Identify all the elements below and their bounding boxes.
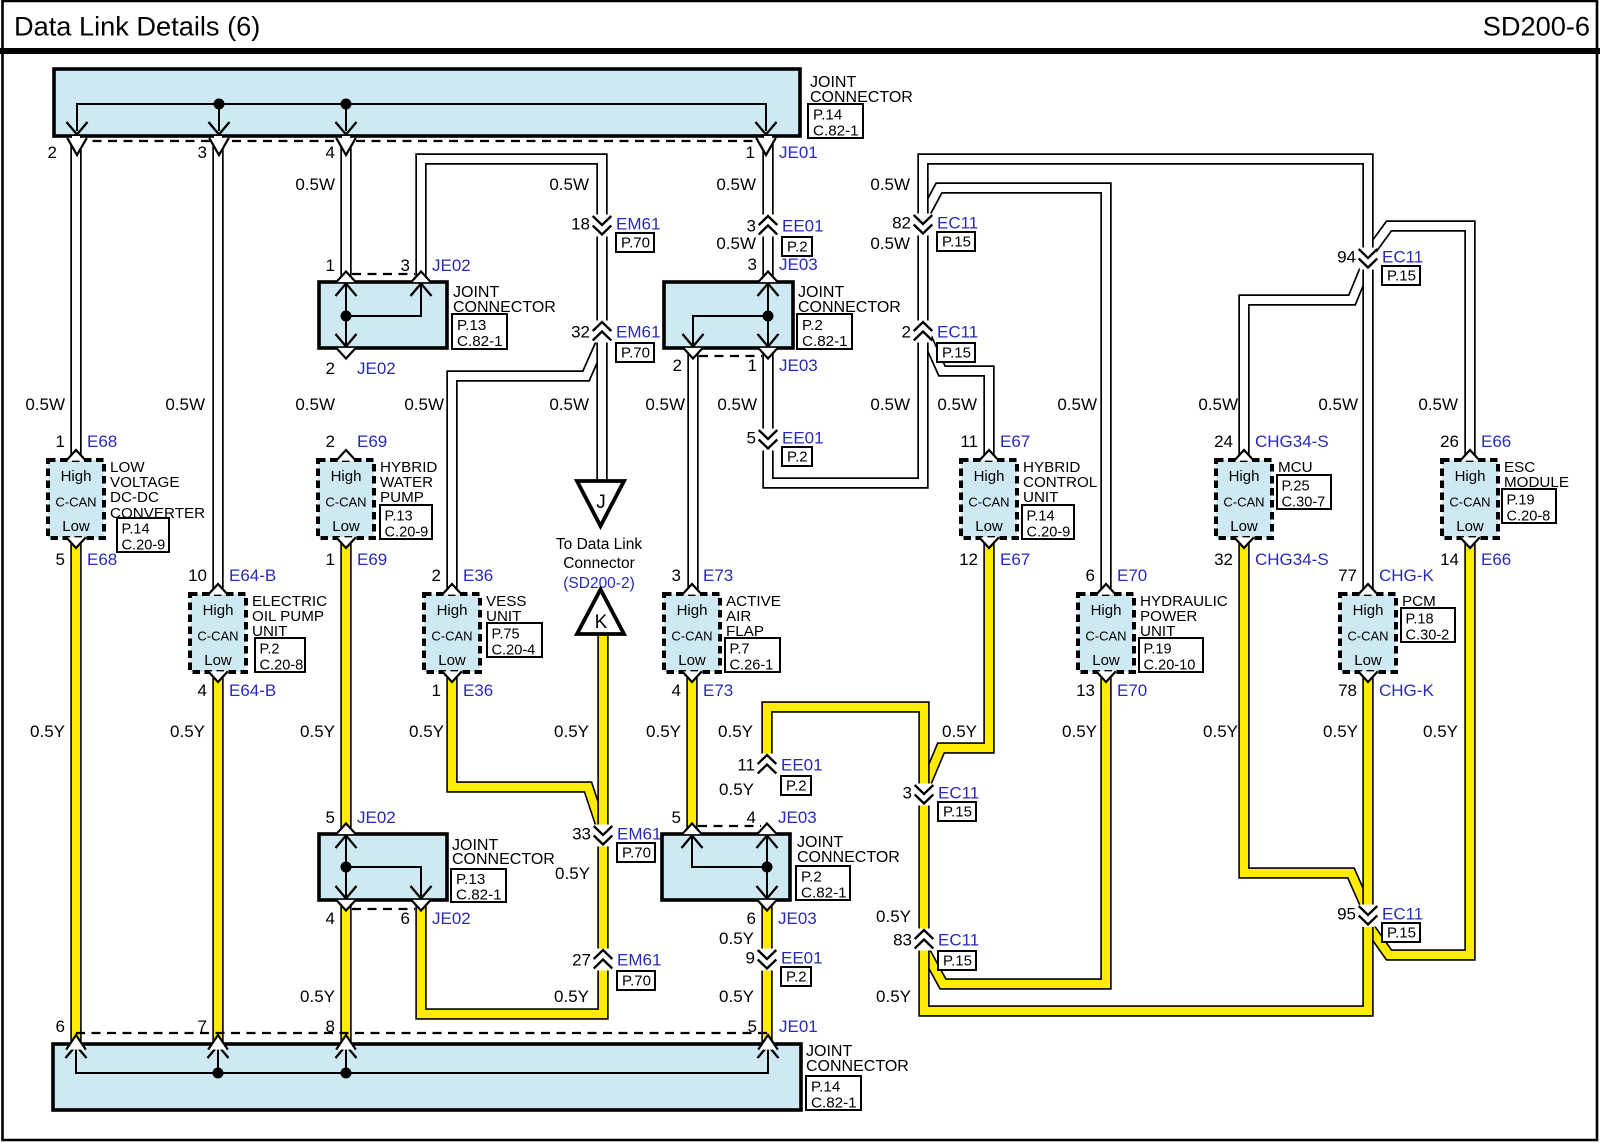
wire E66-14 to EC11-95 (0.5Y): [1370, 538, 1470, 955]
svg-text:EC11: EC11: [1382, 905, 1423, 924]
label JE03 upper page ref P.2 C.82-1: [797, 314, 852, 350]
svg-text:EM61: EM61: [616, 215, 660, 234]
svg-text:5: 5: [748, 1017, 757, 1036]
svg-text:2: 2: [902, 323, 911, 342]
junction dot on bottom JE01 bus: [341, 1068, 352, 1079]
svg-text:0.5W: 0.5W: [25, 395, 65, 414]
joint connector JE03 (upper) box: [664, 282, 793, 348]
svg-text:Low: Low: [438, 652, 466, 669]
wire-end arrow below JE01 top at x=766: [756, 138, 776, 155]
svg-text:0.5Y: 0.5Y: [554, 722, 589, 741]
svg-text:0.5Y: 0.5Y: [876, 987, 911, 1006]
svg-text:33: 33: [572, 825, 591, 844]
dashed boundary JE02 lower: [352, 908, 415, 910]
label JE02 lower pin top: [326, 808, 396, 827]
wire JE02-4 to JE01-8 (0.5Y): [340, 900, 351, 1046]
label pin 95 EC11 P.15: [1337, 905, 1423, 943]
svg-text:C-CAN: C-CAN: [671, 629, 712, 644]
wire-end arrows JE02 upper: [336, 272, 431, 359]
svg-text:C.82-1: C.82-1: [811, 1095, 857, 1112]
svg-text:EE01: EE01: [781, 756, 823, 775]
svg-text:MCU: MCU: [1278, 459, 1313, 476]
svg-text:EC11: EC11: [938, 784, 979, 803]
svg-text:P.15: P.15: [1387, 268, 1416, 285]
svg-text:High: High: [1455, 468, 1486, 485]
svg-text:0.5Y: 0.5Y: [719, 780, 754, 799]
svg-text:C-CAN: C-CAN: [325, 495, 366, 510]
wire CHG-K-78 to EC11-95 (0.5Y): [1362, 672, 1373, 907]
connector EM61 pin 32: [593, 321, 612, 343]
svg-text:Low: Low: [1230, 518, 1258, 535]
dashed boundary JE01 top: [77, 140, 766, 142]
svg-text:18: 18: [571, 215, 590, 234]
svg-text:27: 27: [572, 951, 591, 970]
label pin 33 EM61 P.70: [572, 825, 661, 863]
label unit ESC MODULE (E66) page ref: [1502, 489, 1556, 525]
connector EM61 pin 18: [593, 215, 612, 237]
svg-text:Low: Low: [62, 518, 90, 535]
svg-text:High: High: [677, 602, 708, 619]
svg-text:EE01: EE01: [782, 429, 824, 448]
pin 1 E69 (bottom): [326, 537, 388, 569]
wire EE01-5 to EC11-2 (0.5W): [768, 341, 923, 483]
svg-text:5: 5: [747, 429, 756, 448]
svg-text:13: 13: [1076, 681, 1095, 700]
pin 24 CHG34-S (top): [1214, 432, 1329, 461]
svg-text:0.5W: 0.5W: [870, 395, 910, 414]
svg-text:0.5W: 0.5W: [1318, 395, 1358, 414]
label JE01 top pins: [48, 143, 818, 162]
svg-text:2: 2: [48, 143, 57, 162]
pin 4 E64-B (bottom): [198, 671, 277, 700]
svg-text:E64-B: E64-B: [229, 566, 276, 585]
pin 13 E70 (bottom): [1076, 671, 1147, 700]
label JOINT CONNECTOR (JE03 upper): [798, 284, 901, 316]
svg-text:Data Link Details (6): Data Link Details (6): [14, 11, 260, 42]
pin 12 E67 (bottom): [959, 537, 1030, 569]
pin 26 E66 (top): [1440, 432, 1511, 461]
svg-text:1: 1: [746, 143, 755, 162]
label JOINT CONNECTOR (bottom): [806, 1043, 909, 1075]
label pin 3 EE01 P.2: [747, 217, 824, 257]
label unit LOW VOLTAGE DC-DC CONVERTER (E68) name: [110, 459, 205, 522]
label unit HYDRAULIC POWER UNIT (E70) name: [1140, 593, 1228, 640]
svg-text:0.5Y: 0.5Y: [30, 722, 65, 741]
svg-text:CHG34-S: CHG34-S: [1255, 550, 1329, 569]
connector EC11 pin 83: [915, 929, 934, 951]
svg-text:Low: Low: [1354, 652, 1382, 669]
label unit MCU (CHG34-S) name: [1278, 459, 1313, 476]
unit ESC MODULE (E66): [1442, 460, 1498, 538]
off-page connector J: [577, 481, 624, 526]
unit LOW VOLTAGE DC-DC CONVERTER (E68): [48, 460, 104, 538]
svg-text:C-CAN: C-CAN: [1085, 629, 1126, 644]
svg-text:94: 94: [1337, 248, 1356, 267]
wire JE01-4 to JE02-1 (0.5W): [340, 136, 351, 282]
pin 2 E69 (top): [326, 432, 388, 461]
wire EC11-82 to EC11-2 (0.5W): [917, 234, 928, 323]
svg-text:C-CAN: C-CAN: [55, 495, 96, 510]
svg-text:P.2: P.2: [802, 317, 823, 334]
label unit VESS UNIT (E36) name: [486, 593, 527, 625]
label pin 2 EC11 P.15: [902, 323, 979, 363]
svg-text:C-CAN: C-CAN: [1223, 495, 1264, 510]
svg-text:P.75: P.75: [492, 627, 520, 643]
wire-end arrow below JE01 top at x=219: [209, 138, 229, 155]
svg-text:C.26-1: C.26-1: [730, 658, 774, 674]
label JE02 upper page ref P.13 C.82-1: [452, 314, 507, 350]
svg-text:6: 6: [1086, 566, 1095, 585]
wire EC11-3 to EC11-83 (0.5Y): [918, 804, 929, 931]
svg-text:2: 2: [673, 356, 682, 375]
pin 1 E68 (top): [56, 432, 118, 461]
junction dot on bottom JE01 bus: [213, 1068, 224, 1079]
internal arrow JE01 pin at x=77: [67, 122, 88, 135]
svg-text:Connector: Connector: [563, 555, 635, 572]
wire-end arrows JE03 lower: [682, 824, 777, 911]
pin 10 E64-B (top): [188, 566, 276, 595]
label unit HYBRID WATER PUMP (E69) name: [380, 459, 437, 506]
svg-text:0.5Y: 0.5Y: [555, 864, 590, 883]
unit ELECTRIC OIL PUMP UNIT (E64-B): [190, 594, 246, 672]
svg-text:P.14: P.14: [1027, 509, 1055, 525]
svg-text:Low: Low: [678, 652, 706, 669]
svg-text:Low: Low: [975, 518, 1003, 535]
svg-text:C-CAN: C-CAN: [1449, 495, 1490, 510]
svg-text:K: K: [595, 612, 608, 633]
junction dot on JE01 bus: [214, 99, 225, 110]
svg-text:EC11: EC11: [938, 931, 979, 950]
svg-text:E67: E67: [1000, 432, 1030, 451]
connector EE01 pin 11: [758, 754, 777, 776]
label pin 5 EE01 P.2: [747, 429, 824, 467]
wire-end arrow above JE01 bottom at x=76: [66, 1035, 86, 1050]
svg-text:9: 9: [746, 949, 755, 968]
label pin 94 EC11 P.15: [1337, 248, 1423, 286]
wire JE01-3 to E64-B-10 (0.5W): [212, 136, 223, 594]
svg-text:3: 3: [747, 217, 756, 236]
svg-text:95: 95: [1337, 905, 1356, 924]
wire E66-26 to EC11-94 (0.5W): [1370, 226, 1470, 460]
pin 11 E67 (top): [960, 432, 1030, 461]
svg-text:4: 4: [747, 808, 756, 827]
wire EC11-94 to CHG-K-77 (0.5W): [1362, 268, 1373, 594]
svg-text:E64-B: E64-B: [229, 681, 276, 700]
svg-text:3: 3: [672, 566, 681, 585]
svg-text:High: High: [1229, 468, 1260, 485]
svg-text:83: 83: [893, 931, 912, 950]
svg-text:5: 5: [672, 808, 681, 827]
svg-text:To Data Link: To Data Link: [556, 536, 642, 553]
internal arrow bottom JE01 pin at x=768: [758, 1046, 779, 1059]
svg-text:11: 11: [737, 756, 755, 775]
svg-text:P.14: P.14: [813, 107, 842, 124]
label JE02 lower pins bottom: [326, 909, 471, 928]
off-page connector K: [577, 590, 624, 635]
wire E36-1 to EM61-33 (0.5Y): [452, 672, 601, 826]
svg-text:P.13: P.13: [385, 509, 413, 525]
svg-text:0.5Y: 0.5Y: [1203, 722, 1238, 741]
label pin 27 EM61 P.70: [572, 951, 661, 991]
svg-text:CONNECTOR: CONNECTOR: [452, 851, 555, 868]
svg-text:P.2: P.2: [787, 239, 808, 256]
svg-text:1: 1: [748, 356, 757, 375]
wire EC11-83 branch to E70-13 (0.5Y): [925, 672, 1106, 984]
svg-text:P.15: P.15: [943, 953, 972, 970]
svg-text:C.20-9: C.20-9: [122, 538, 166, 554]
wire-end arrow below JE01 top at x=77: [67, 138, 87, 155]
svg-text:0.5Y: 0.5Y: [719, 929, 754, 948]
label pin 3 EC11 P.15: [903, 784, 980, 822]
svg-text:P.7: P.7: [730, 642, 750, 658]
svg-text:High: High: [203, 602, 234, 619]
svg-text:2: 2: [326, 432, 335, 451]
svg-text:E70: E70: [1117, 566, 1147, 585]
svg-text:0.5W: 0.5W: [937, 395, 977, 414]
svg-text:P.70: P.70: [622, 845, 651, 862]
svg-text:JE03: JE03: [778, 909, 817, 928]
internal arrow bottom JE01 pin at x=218: [208, 1046, 229, 1059]
JE03 upper internal wiring: [693, 284, 768, 346]
svg-text:0.5Y: 0.5Y: [942, 722, 977, 741]
label bottom JC page ref P.14 C.82-1: [806, 1076, 861, 1112]
svg-text:C.82-1: C.82-1: [802, 333, 848, 350]
svg-text:6: 6: [401, 909, 410, 928]
connector EC11 pin 3: [915, 784, 934, 806]
wire E64-B-4 to JE01-7 (0.5Y): [212, 672, 223, 1046]
wire EM61-32 to J connector (0.5W): [596, 341, 607, 480]
svg-text:8: 8: [326, 1017, 335, 1036]
junction dot on JE01 bus: [341, 99, 352, 110]
svg-text:CHG-K: CHG-K: [1379, 566, 1434, 585]
svg-text:Low: Low: [204, 652, 232, 669]
label unit HYBRID CONTROL UNIT (E67) page ref: [1022, 505, 1074, 541]
svg-text:P.2: P.2: [801, 869, 822, 886]
svg-text:JE03: JE03: [779, 255, 818, 274]
svg-text:CHG-K: CHG-K: [1379, 681, 1434, 700]
svg-text:C.20-4: C.20-4: [492, 643, 536, 659]
svg-text:High: High: [61, 468, 92, 485]
svg-text:P.18: P.18: [1406, 612, 1434, 628]
svg-text:EC11: EC11: [937, 323, 978, 342]
unit HYBRID CONTROL UNIT (E67): [961, 460, 1017, 538]
svg-text:4: 4: [326, 143, 335, 162]
label JOINT CONNECTOR (JE03 lower): [797, 834, 900, 866]
svg-text:10: 10: [188, 566, 207, 585]
label unit LOW VOLTAGE DC-DC CONVERTER (E68) page ref: [117, 518, 169, 554]
svg-text:C-CAN: C-CAN: [1347, 629, 1388, 644]
wire EM61-32 branch to E36-2 (0.5W): [452, 340, 602, 594]
svg-text:12: 12: [959, 550, 978, 569]
svg-text:JE01: JE01: [779, 143, 818, 162]
joint connector JE02 (lower) box: [319, 834, 447, 900]
pin 77 CHG-K (top): [1338, 566, 1434, 595]
svg-text:0.5W: 0.5W: [717, 395, 757, 414]
label unit ACTIVE AIR FLAP (E73) name: [726, 593, 781, 640]
wire EC11-82 to EC11-94 (0.5W): [923, 159, 1368, 250]
wire-end arrow above JE01 bottom at x=218: [208, 1035, 228, 1050]
svg-text:P.2: P.2: [786, 778, 807, 795]
label unit HYBRID WATER PUMP (E69) page ref: [380, 505, 432, 541]
svg-text:0.5W: 0.5W: [870, 234, 910, 253]
svg-text:JE01: JE01: [779, 1017, 818, 1036]
svg-text:EE01: EE01: [781, 949, 823, 968]
dashed boundary JE02 upper: [352, 273, 415, 275]
svg-text:4: 4: [326, 909, 335, 928]
label JE01 bottom pins: [56, 1017, 818, 1036]
label unit HYBRID CONTROL UNIT (E67) name: [1023, 459, 1097, 506]
wire-end arrows JE02 lower: [336, 824, 431, 911]
wire EC11-94 branch to CHG34-S-24 (0.5W): [1244, 266, 1366, 460]
svg-text:0.5W: 0.5W: [295, 175, 335, 194]
svg-text:3: 3: [198, 143, 207, 162]
label unit HYDRAULIC POWER UNIT (E70) page ref: [1139, 638, 1203, 674]
wire EM61-33 to EM61-27 (0.5Y): [597, 845, 608, 951]
joint connector JE01 (bottom) box: [53, 1044, 801, 1110]
svg-text:P.15: P.15: [942, 345, 971, 362]
label unit ELECTRIC OIL PUMP UNIT (E64-B) name: [252, 593, 327, 640]
label JE03 lower pins top: [672, 808, 817, 827]
wire JE01-1 to EE01-3 (0.5W): [762, 136, 773, 217]
svg-text:3: 3: [748, 255, 757, 274]
wire EE01-11 to EC11-3 (0.5Y): [767, 707, 924, 786]
svg-text:EM61: EM61: [616, 323, 660, 342]
label unit PCM (CHG-K) page ref: [1401, 608, 1455, 644]
svg-text:High: High: [974, 468, 1005, 485]
svg-text:0.5W: 0.5W: [716, 234, 756, 253]
svg-text:P.15: P.15: [943, 804, 972, 821]
svg-text:7: 7: [198, 1017, 207, 1036]
svg-text:High: High: [1091, 602, 1122, 619]
svg-text:E69: E69: [357, 550, 387, 569]
svg-text:J: J: [596, 492, 606, 513]
svg-text:0.5Y: 0.5Y: [1423, 722, 1458, 741]
svg-text:Low: Low: [332, 518, 360, 535]
svg-text:DC-DC: DC-DC: [110, 489, 159, 506]
pin 78 CHG-K (bottom): [1338, 671, 1434, 700]
joint connector JE03 (lower) box: [662, 834, 790, 900]
svg-text:1: 1: [326, 550, 335, 569]
svg-text:C-CAN: C-CAN: [431, 629, 472, 644]
svg-text:Low: Low: [1456, 518, 1484, 535]
label unit VESS UNIT (E36) page ref: [487, 623, 542, 659]
svg-text:6: 6: [56, 1017, 65, 1036]
svg-text:C.82-1: C.82-1: [813, 123, 859, 140]
wire EM61-18 to EM61-32 (0.5W): [596, 235, 607, 323]
svg-text:2: 2: [326, 359, 335, 378]
svg-text:EM61: EM61: [617, 825, 661, 844]
wire E73-4 to JE03-5 (0.5Y): [686, 672, 697, 834]
pin 5 E68 (bottom): [56, 537, 118, 569]
label JE03 upper pins bottom: [673, 356, 818, 375]
internal arrows JE02 lower: [336, 836, 432, 899]
svg-text:P.70: P.70: [621, 345, 650, 362]
svg-text:E66: E66: [1481, 432, 1511, 451]
junction dot JE02 lower: [341, 862, 352, 873]
unit VESS UNIT (E36): [424, 594, 480, 672]
internal arrows JE03 lower: [682, 836, 778, 899]
svg-text:0.5W: 0.5W: [549, 395, 589, 414]
svg-text:EC11: EC11: [1382, 248, 1423, 267]
internal arrow JE01 pin at x=766: [756, 122, 777, 135]
svg-text:5: 5: [56, 550, 65, 569]
svg-text:C.20-10: C.20-10: [1144, 658, 1196, 674]
svg-text:0.5Y: 0.5Y: [300, 722, 335, 741]
svg-text:14: 14: [1440, 550, 1459, 569]
svg-text:JE02: JE02: [432, 909, 471, 928]
svg-text:0.5Y: 0.5Y: [554, 987, 589, 1006]
label JE02 upper pins top: [326, 256, 471, 275]
JE03 lower internal wiring: [692, 836, 767, 898]
title separator bar: [0, 48, 1600, 54]
JE02 upper internal wiring: [346, 284, 421, 346]
junction dot JE02 upper: [341, 311, 352, 322]
connector EC11 pin 2: [914, 321, 933, 343]
wire-end arrow below JE01 top at x=346: [336, 138, 356, 155]
unit HYDRAULIC POWER UNIT (E70): [1078, 594, 1134, 672]
svg-text:High: High: [1353, 602, 1384, 619]
wire E68-5 to JE01-6 (0.5Y): [70, 538, 81, 1046]
svg-text:11: 11: [960, 432, 978, 451]
svg-text:0.5W: 0.5W: [1418, 395, 1458, 414]
svg-text:E69: E69: [357, 432, 387, 451]
svg-text:E66: E66: [1481, 550, 1511, 569]
svg-text:C.20-9: C.20-9: [1027, 525, 1071, 541]
connector EE01 pin 5: [759, 429, 778, 451]
connector EM61 pin 33: [594, 825, 613, 847]
svg-text:P.13: P.13: [456, 871, 485, 888]
top JE01 internal bus wire: [77, 104, 766, 131]
svg-text:CONNECTOR: CONNECTOR: [806, 1058, 909, 1075]
svg-text:P.70: P.70: [621, 235, 650, 252]
svg-text:JE02: JE02: [432, 256, 471, 275]
wire-end arrow above JE01 bottom at x=346: [336, 1035, 356, 1050]
internal arrow JE01 pin at x=346: [336, 122, 357, 135]
label unit ELECTRIC OIL PUMP UNIT (E64-B) page ref: [255, 638, 305, 674]
svg-text:82: 82: [892, 214, 911, 233]
wire EC11-2 branch to E67-11 (0.5W): [927, 338, 989, 460]
svg-text:P.25: P.25: [1282, 479, 1310, 495]
dashed boundary JE01 bottom: [76, 1032, 768, 1034]
svg-text:E36: E36: [463, 566, 493, 585]
svg-text:P.19: P.19: [1144, 642, 1172, 658]
svg-text:EC11: EC11: [937, 214, 978, 233]
bottom JE01 internal bus wire: [76, 1049, 768, 1073]
svg-text:1: 1: [56, 432, 65, 451]
wire JE02-6 to EM61-27 (0.5Y): [421, 900, 603, 1014]
wire EC11-82 branch to E70-6 (0.5W): [925, 188, 1106, 594]
svg-text:2: 2: [432, 566, 441, 585]
svg-text:P.70: P.70: [622, 973, 651, 990]
label To Data Link Connector (SD200-2): [556, 536, 642, 592]
wire-end arrows JE03 upper: [683, 272, 778, 359]
unit MCU (CHG34-S): [1216, 460, 1272, 538]
svg-text:0.5W: 0.5W: [645, 395, 685, 414]
JE02 lower internal wiring: [346, 836, 421, 898]
wire JE03-6 to EE01-9 (0.5Y): [761, 900, 772, 951]
pin 3 E73 (top): [672, 566, 734, 595]
svg-text:0.5W: 0.5W: [1057, 395, 1097, 414]
wire E67-12 to EC11-3 (0.5Y): [925, 538, 989, 786]
dashed boundary JE03 upper: [699, 355, 762, 357]
svg-text:E36: E36: [463, 681, 493, 700]
svg-text:P.15: P.15: [1387, 925, 1416, 942]
svg-text:JE03: JE03: [778, 808, 817, 827]
connector EE01 pin 3: [759, 215, 778, 237]
label unit PCM (CHG-K) name: [1402, 593, 1436, 610]
svg-text:C.82-1: C.82-1: [456, 887, 502, 904]
wire EE01-3 to JE03-3 (0.5W): [762, 234, 773, 282]
